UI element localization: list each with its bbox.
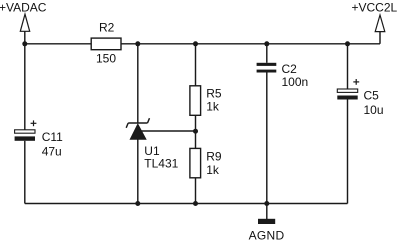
svg-text:TL431: TL431: [144, 157, 178, 171]
junction AGND node: [264, 201, 269, 206]
resistor R5: [190, 86, 201, 116]
wire U1 reference: [141, 130, 195, 132]
wire C2 top lead: [266, 44, 268, 63]
ground AGND: [258, 219, 275, 224]
svg-text:R2: R2: [99, 21, 115, 35]
junction C2 top node: [264, 41, 269, 46]
svg-text:10u: 10u: [364, 103, 384, 117]
svg-text:+VCC2L: +VCC2L: [352, 0, 398, 14]
power arrow +VCC2L: [375, 15, 385, 32]
wire +VADAC riser: [24, 31, 26, 44]
junction top left: [22, 41, 27, 46]
junction reference node: [193, 129, 198, 134]
capacitor C5: [337, 79, 359, 100]
junction U1 top node: [135, 41, 140, 46]
power arrow +VADAC: [20, 14, 29, 31]
svg-text:R9: R9: [206, 150, 222, 164]
wire left rail lower: [24, 141, 26, 204]
wire top rail right of R2: [121, 43, 380, 45]
resistor R2: [91, 38, 121, 50]
wire AGND stub: [266, 204, 268, 220]
junction C5 top node: [345, 41, 350, 46]
wire bottom rail: [25, 203, 348, 205]
svg-text:AGND: AGND: [249, 229, 285, 240]
wire C2 bottom lead: [266, 73, 268, 204]
junction R5 top node: [193, 41, 198, 46]
wire R5-R9 link: [195, 115, 197, 148]
svg-text:1k: 1k: [206, 99, 220, 113]
svg-text:1k: 1k: [206, 163, 220, 177]
wire top rail left of R2: [25, 43, 91, 45]
capacitor C11: [15, 120, 37, 140]
wire U1 cathode lead: [137, 44, 139, 123]
svg-text:C5: C5: [364, 88, 380, 102]
wire C5 bottom lead: [347, 100, 349, 204]
wire C5 top lead: [347, 44, 349, 89]
wire R9 bottom lead: [195, 178, 197, 204]
svg-text:150: 150: [96, 52, 116, 66]
svg-text:C2: C2: [282, 62, 298, 76]
shunt regulator U1 TL431: [126, 118, 149, 139]
resistor R9: [190, 148, 201, 177]
wire +VCC2L riser: [379, 32, 381, 44]
svg-text:C11: C11: [42, 130, 63, 144]
junction U1 bottom node: [135, 201, 140, 206]
wire left rail upper: [24, 44, 26, 130]
svg-text:47u: 47u: [42, 145, 62, 159]
wire R5 top lead: [195, 44, 197, 86]
svg-text:100n: 100n: [282, 75, 309, 89]
svg-text:+VADAC: +VADAC: [0, 0, 47, 14]
junction R9 bottom node: [193, 201, 198, 206]
wire U1 anode lead: [137, 139, 139, 203]
capacitor C2: [257, 63, 277, 73]
